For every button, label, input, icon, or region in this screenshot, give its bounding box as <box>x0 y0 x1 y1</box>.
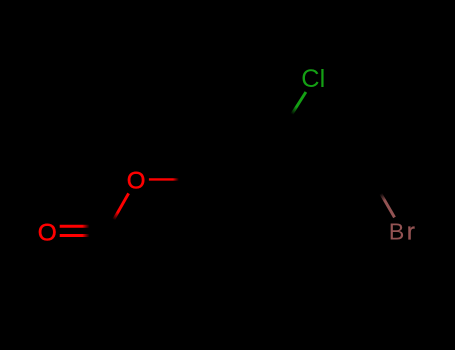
bond Cl-ring (green half) <box>292 92 306 114</box>
bond O-ring (red half, horizontal) <box>149 178 179 180</box>
bond CH2-Br (maroon half) <box>381 193 395 217</box>
wire: C-half of C=O double bond (invisible black) <box>86 226 107 235</box>
bond O-C(=O) (red half, diagonal) <box>114 193 129 219</box>
svg-text:r: r <box>407 219 415 246</box>
wire: C-CH3 bond of acetyl group (invisible black) <box>108 231 138 283</box>
wire: ring to CH2 bond (invisible black) <box>325 162 357 180</box>
svg-text:O: O <box>38 219 57 246</box>
svg-text:Cl: Cl <box>301 65 325 93</box>
svg-text:O: O <box>127 168 146 195</box>
double bond C=O lower line (red half) <box>60 234 90 237</box>
wire: CH2-half of CH2-Br bond (invisible black) <box>357 162 383 198</box>
wire: C-half of O(ester)-C bond (invisible black) <box>108 215 117 231</box>
wire: C-half of O(ester)-ring bond (invisible black) <box>176 179 205 182</box>
wire: C-half of Cl-ring bond (invisible black) <box>293 110 297 128</box>
benzene ring (carbon skeleton, near-invisible on black) <box>205 128 325 232</box>
double bond C=O upper line (red half) <box>60 225 90 228</box>
svg-text:B: B <box>389 219 405 245</box>
